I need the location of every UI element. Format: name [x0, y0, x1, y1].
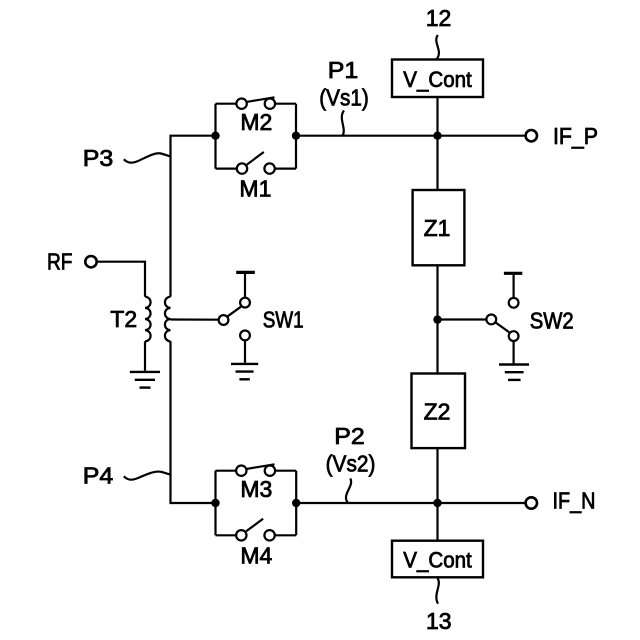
svg-text:(Vs1): (Vs1) [319, 85, 369, 111]
wire bottom horizontal left segment (trunk to M3/M4) [171, 341, 216, 503]
svg-text:T2: T2 [110, 306, 137, 332]
switch M3 contact circles [236, 466, 246, 476]
wire primary bottom to ground [144, 341, 146, 371]
node left of M2/M1 [211, 132, 219, 140]
wire RF to transformer primary [98, 262, 145, 297]
node P1 junction dot [433, 132, 441, 140]
switch M2 contact circles [236, 99, 246, 109]
svg-text:SW2: SW2 [530, 308, 574, 334]
node right of M3/M4 [292, 499, 300, 507]
svg-text:M3: M3 [240, 476, 272, 502]
node right of M2/M1 [292, 132, 300, 140]
switch SW2 blade [496, 323, 510, 333]
switch SW1 blade [228, 307, 241, 316]
svg-text:P4: P4 [83, 463, 114, 489]
terminal RF [85, 256, 96, 267]
transformer T2 secondary winding [165, 297, 171, 342]
switch M4 bottom branch wires [216, 534, 237, 536]
node P2 junction dot [433, 499, 441, 507]
switch M1 bottom branch wires [216, 168, 238, 170]
switch SW1 upper terminal T-bar [244, 274, 246, 298]
wire SW1 lower contact to ground [244, 340, 246, 363]
transformer T2 primary winding [145, 297, 151, 342]
switch SW2 upper contact [509, 298, 519, 308]
switch M3 blade [247, 464, 275, 469]
switch M1 blade (open) [247, 152, 264, 165]
wire top horizontal right segment (M2/M1 to IF_P) [296, 135, 525, 137]
switch block M2/M1 left vertical [214, 104, 216, 169]
switch M4 contact circles [236, 530, 246, 540]
wire SW2 lower contact to ground [512, 341, 514, 363]
lead squiggle V_Cont to 13 [436, 578, 438, 603]
svg-text:Z1: Z1 [424, 215, 451, 241]
svg-text:(Vs2): (Vs2) [326, 451, 376, 477]
block Z1 [413, 190, 465, 265]
switch SW1 upper contact [240, 298, 250, 308]
wire top horizontal left segment (trunk to M2/M1) [171, 136, 216, 297]
block V_Cont (bottom, 13) [392, 541, 483, 578]
wire secondary center tap to SW1 [171, 318, 219, 320]
switch block M3/M4 right vertical [295, 471, 297, 536]
node left of M3/M4 [211, 499, 219, 507]
terminal IF_N [526, 497, 537, 508]
switch M2 top branch wires [216, 103, 237, 105]
svg-text:SW1: SW1 [263, 307, 304, 333]
svg-text:P2: P2 [334, 423, 365, 449]
svg-text:IF_P: IF_P [553, 123, 598, 149]
node mid junction dot [433, 315, 441, 323]
wire mid node to SW2 common [438, 318, 487, 320]
switch M1 contact circles [237, 163, 247, 173]
svg-text:IF_N: IF_N [553, 488, 596, 514]
wire V_Cont top to node P1 [436, 97, 438, 190]
svg-text:V_Cont: V_Cont [403, 67, 472, 92]
ground below SW2 [499, 363, 529, 365]
lead squiggle P2 to wire [346, 479, 351, 504]
terminal IF_P [526, 130, 537, 141]
svg-text:V_Cont: V_Cont [403, 548, 472, 573]
switch SW1 common contact [219, 315, 229, 325]
switch M4 blade (open) [246, 519, 263, 532]
ground below SW1 [231, 363, 258, 365]
wire Z2 bottom to bottom node [436, 448, 438, 541]
block V_Cont (top, 12) [392, 60, 483, 98]
lead squiggle P1 to wire [342, 111, 344, 136]
switch SW2 common contact [486, 315, 496, 325]
wire bottom horizontal right segment (M3/M4 to IF_N) [296, 502, 525, 504]
svg-text:RF: RF [47, 249, 73, 275]
svg-text:P1: P1 [328, 57, 359, 83]
lead squiggle P4 to trunk [124, 472, 171, 480]
wire Z1 bottom to mid node [436, 265, 438, 373]
ground below T2 primary [130, 371, 160, 373]
svg-text:M1: M1 [239, 176, 271, 202]
lead squiggle P3 to trunk [124, 153, 171, 162]
svg-text:M2: M2 [240, 109, 272, 135]
switch SW1 lower contact [240, 331, 250, 341]
svg-text:13: 13 [426, 608, 452, 634]
svg-text:12: 12 [426, 5, 452, 31]
switch M2 blade [247, 97, 275, 102]
svg-text:M4: M4 [240, 543, 272, 569]
switch SW2 upper terminal T-bar [512, 275, 514, 298]
block Z2 [412, 374, 466, 449]
lead squiggle from 12 to V_Cont [436, 35, 439, 60]
switch M3 top branch wires [216, 470, 237, 472]
switch block M3/M4 left vertical [214, 471, 216, 536]
svg-text:P3: P3 [83, 145, 114, 171]
svg-text:Z2: Z2 [424, 399, 451, 425]
switch SW2 lower contact [509, 331, 519, 341]
switch block M2/M1 right vertical [295, 104, 297, 169]
